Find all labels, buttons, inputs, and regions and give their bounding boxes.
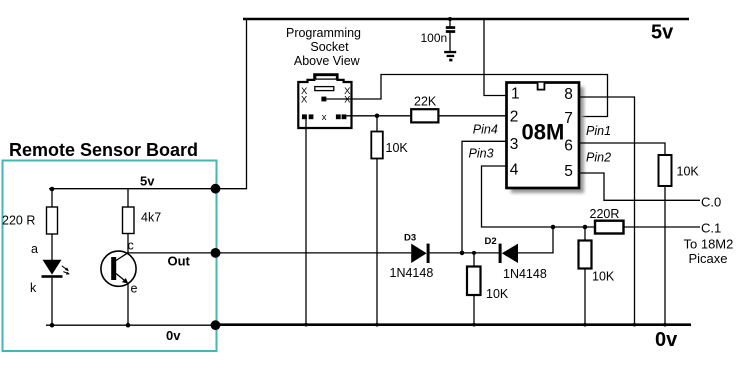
svg-text:D2: D2 [485, 236, 497, 247]
transistor Q1 emitter stroke [116, 274, 127, 283]
svg-text:220 R: 220 R [2, 214, 35, 228]
wire Out line (board to D3) [128, 252, 411, 254]
wire board 0v rail [46, 324, 216, 326]
node 0v border junction [211, 320, 221, 330]
IC U1 notch [538, 83, 545, 90]
wire 10K R4 bottom lead [584, 269, 586, 325]
svg-text:3: 3 [510, 136, 519, 153]
node 5v board junction [211, 184, 221, 194]
svg-text:Above View: Above View [294, 54, 361, 68]
programming socket J1 body [298, 74, 351, 128]
node 10K R4 junction [583, 225, 588, 230]
transistor Q1 emitter arrowhead [122, 278, 128, 284]
resistor 220 R body [47, 207, 58, 234]
svg-text:x: x [322, 112, 327, 123]
capacitor C1 bottom lead [449, 33, 451, 51]
wire pin8 to 0v [579, 97, 635, 325]
svg-text:10K: 10K [592, 270, 615, 284]
svg-text:4k7: 4k7 [141, 211, 161, 225]
capacitor C1 top lead [449, 19, 451, 27]
wire D2 to C.1 bus [518, 227, 553, 253]
wire emitter lead to 0v [127, 283, 129, 325]
diode D3 triangle [411, 244, 426, 263]
capacitor C1 plate 2 [446, 30, 455, 33]
wire board 5v rail [49, 188, 216, 190]
wire 220R top lead [51, 189, 53, 207]
node pin3-Out junction [460, 251, 465, 256]
Remote Sensor Board outline [3, 161, 217, 352]
svg-text:10K: 10K [386, 141, 409, 155]
socket middle pin (serial out) [321, 97, 326, 102]
wire 0v bottom rail [215, 323, 691, 326]
diode D2 triangle [502, 244, 518, 263]
op-amp/IC U1 08M body [507, 83, 580, 189]
wire 5v feed riser from top rail to board [216, 19, 247, 189]
diode D3 cathode bar [427, 244, 430, 263]
svg-text:Remote Sensor Board: Remote Sensor Board [9, 140, 198, 160]
LED D1 triangle [43, 260, 62, 275]
svg-text:Socket: Socket [310, 40, 349, 54]
svg-text:X: X [301, 95, 308, 106]
svg-text:6: 6 [564, 137, 573, 154]
svg-text:1N4148: 1N4148 [503, 267, 547, 281]
svg-text:4: 4 [510, 162, 519, 179]
socket tab slot [316, 76, 337, 80]
resistor 10K R5 body [659, 155, 672, 186]
svg-text:Programming: Programming [286, 26, 361, 40]
node 22K-10K junction [375, 114, 380, 119]
wire 10K R2 bottom lead to 0v [376, 159, 378, 325]
svg-text:Pin3: Pin3 [469, 147, 494, 161]
capacitor C1 plate 1 [446, 26, 455, 29]
wire pin1 supply riser [484, 19, 507, 96]
IC U1 drop shadow [511, 87, 584, 193]
svg-text:Pin2: Pin2 [586, 151, 611, 165]
transistor Q1 collector stroke [116, 253, 128, 261]
wire socket ground drop [305, 119, 307, 325]
svg-text:1: 1 [511, 85, 520, 102]
resistor 220R body [595, 221, 624, 234]
node 10K R4 at 0v rail [583, 323, 587, 327]
wire 4k7 bottom lead [127, 234, 129, 253]
node 10K R3 junction [472, 251, 476, 255]
svg-text:C.0: C.0 [701, 195, 721, 210]
svg-text:0v: 0v [655, 329, 678, 351]
node 10K R3 at 0v rail [472, 323, 476, 327]
resistor 10K R4 body [579, 241, 592, 269]
socket bottom-right pin pair [336, 114, 341, 119]
wire 10K R3 bottom lead [473, 295, 475, 325]
wire LED cathode lead [51, 278, 53, 325]
svg-text:0v: 0v [166, 328, 181, 343]
svg-text:10K: 10K [486, 287, 509, 301]
node 10K R2 at 0v rail [375, 323, 379, 327]
svg-text:e: e [131, 282, 138, 296]
node 10K R5 at 0v rail [663, 323, 667, 327]
svg-text:1N4148: 1N4148 [390, 266, 434, 280]
resistor 22K body [411, 109, 438, 122]
wire pin4 to C.1 bus [482, 166, 596, 227]
node Out border junction [211, 248, 221, 258]
svg-text:2: 2 [510, 109, 519, 126]
svg-text:5v: 5v [651, 22, 674, 44]
wire 4k7 top lead [127, 189, 129, 207]
svg-text:5: 5 [564, 163, 573, 180]
wire 10K R3 top lead [473, 253, 475, 267]
svg-text:7: 7 [564, 110, 573, 127]
wire 10K R5 bottom lead to 0v [664, 186, 666, 325]
wire 22K to chip pin2 [438, 115, 506, 117]
svg-text:k: k [30, 281, 37, 295]
svg-text:Out: Out [168, 254, 191, 269]
wire pin3 to Out node [462, 141, 507, 253]
node 220R top junction [50, 187, 55, 192]
wire 5v top rail [243, 18, 689, 21]
svg-text:To 18M2: To 18M2 [684, 237, 734, 252]
socket body slot [315, 87, 334, 91]
svg-text:c: c [128, 239, 134, 253]
svg-text:Picaxe: Picaxe [689, 251, 728, 266]
capacitor C1 100n top tick [448, 17, 452, 21]
node emitter 0v junction [126, 323, 131, 328]
svg-text:8: 8 [564, 86, 573, 103]
wire serial out: socket mid pin to chip pin7 [326, 75, 607, 117]
transistor Q1 base bar [111, 257, 116, 280]
diode D2 cathode bar [499, 244, 502, 263]
node D2 riser junction [551, 225, 556, 230]
node pin8 at 0v rail [633, 323, 637, 327]
svg-text:22K: 22K [414, 95, 437, 109]
wire 10K R2 top lead [376, 116, 378, 132]
LED emission arrow 1 [62, 266, 69, 271]
svg-text:C.1: C.1 [701, 221, 721, 236]
socket bottom-left pin pair [302, 114, 307, 119]
svg-text:D3: D3 [404, 233, 416, 244]
wire D3 to D2 [430, 252, 499, 254]
wire 10K R4 top lead [584, 227, 586, 241]
LED emission arrow 2 [63, 272, 70, 275]
svg-text:a: a [31, 242, 38, 256]
svg-text:10K: 10K [677, 165, 700, 179]
svg-text:Pin1: Pin1 [586, 124, 611, 138]
svg-text:08M: 08M [522, 119, 565, 144]
svg-text:X: X [344, 95, 351, 106]
wire serial in: socket to 22K [346, 115, 411, 117]
LED cathode bar [42, 275, 63, 278]
wire pin6 to 10K R5 [579, 143, 665, 155]
resistor 10K R2 body [371, 132, 383, 159]
node socket ground at 0v rail [304, 323, 308, 327]
svg-text:Pin4: Pin4 [473, 122, 498, 136]
wire 220R to C.1 [624, 226, 701, 228]
transistor Q1 circle [101, 251, 136, 286]
wire pin5 to C.0 [579, 173, 700, 200]
node LED 0v junction [50, 323, 55, 328]
ground symbol (C1) [444, 51, 456, 53]
wire 220R bottom lead [51, 234, 53, 260]
resistor 10K R3 body [467, 267, 481, 296]
svg-text:5v: 5v [140, 174, 155, 189]
svg-text:220R: 220R [590, 207, 620, 221]
resistor 4k7 body [123, 207, 135, 234]
svg-text:100n: 100n [421, 31, 448, 45]
